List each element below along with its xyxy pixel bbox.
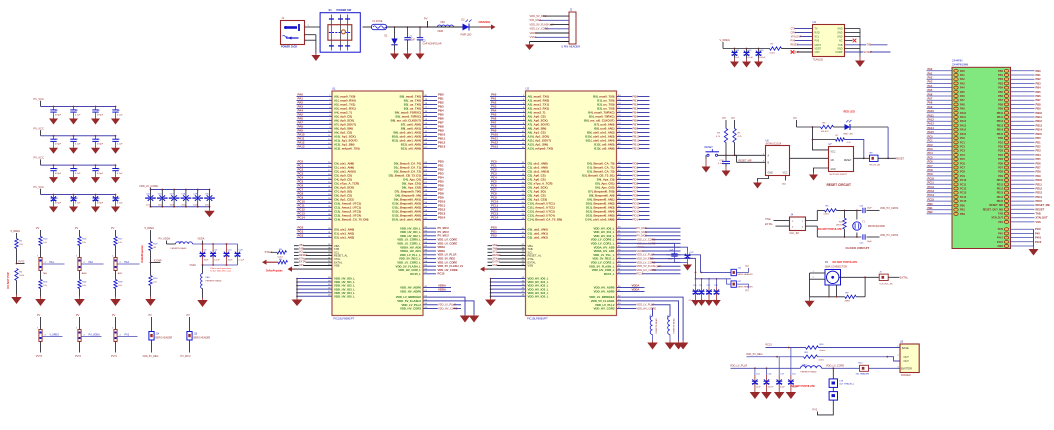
- svg-text:Place each pair close: Place each pair close: [211, 267, 233, 270]
- VDDA cap bank bottom rail: [203, 264, 238, 266]
- svg-text:PV_VDDA: PV_VDDA: [89, 333, 101, 336]
- svg-text:ORANGE: ORANGE: [479, 20, 491, 24]
- U1 left pin TAB: [294, 248, 332, 250]
- svg-text:PB1: PB1: [960, 209, 965, 212]
- capacitor C33 0.1uF: [716, 279, 718, 287]
- ground of 5_0REG divider: [16, 295, 18, 298]
- ground under C40: [73, 116, 75, 119]
- svg-text:0.1uF: 0.1uF: [117, 114, 123, 116]
- U2 left pin PA5: [490, 116, 526, 118]
- wire jack pin1 to switch: [305, 26, 321, 28]
- svg-text:RXD: RXD: [815, 32, 820, 35]
- P1 right pin PB8: [1011, 103, 1035, 105]
- svg-text:0.1uF: 0.1uF: [689, 300, 695, 302]
- U2 left pin PG1: [490, 233, 526, 235]
- SMA left pins: [810, 272, 826, 274]
- wire button to U6: [718, 154, 766, 156]
- capacitor C52: [95, 164, 97, 166]
- svg-text:PD13: PD13: [997, 192, 1004, 195]
- svg-text:3X1 HEADER: 3X1 HEADER: [856, 373, 870, 376]
- svg-text:DO NOT POP: DO NOT POP: [6, 272, 10, 289]
- U2 right supply pin VDD_5V_REG: [617, 258, 681, 260]
- U3 right pin 8 wire: [845, 51, 891, 53]
- svg-text:100-470: 100-470: [821, 131, 830, 133]
- svg-text:TCAN332: TCAN332: [813, 59, 824, 62]
- svg-text:PV_MCU: PV_MCU: [438, 226, 449, 230]
- svg-text:RC15: RC15: [766, 344, 773, 347]
- U2 right pin PB3: [617, 108, 650, 110]
- cap bus wire: [723, 48, 770, 50]
- svg-text:RESET_MB: RESET_MB: [989, 204, 1003, 207]
- svg-text:PC6: PC6: [928, 160, 934, 164]
- svg-text:GND: GND: [997, 245, 1003, 248]
- U1 left pin PC1: [297, 167, 333, 169]
- svg-text:PB12: PB12: [1036, 119, 1043, 123]
- U3 left pin 2 wire: [791, 32, 813, 34]
- svg-text:JCOMP: JCOMP: [154, 260, 163, 262]
- P1 right pin PD8: [1011, 171, 1035, 173]
- svg-text:BASE: BASE: [902, 347, 909, 350]
- svg-text:PD14: PD14: [1036, 195, 1043, 199]
- svg-text:VDDA: VDDA: [632, 288, 640, 292]
- U2 left pin PC14: [490, 219, 526, 221]
- U2 left pin PA6: [490, 120, 526, 122]
- svg-text:PC5: PC5: [960, 158, 965, 161]
- P1 right pin VSS: [1011, 221, 1035, 223]
- P1 left pin PA9: [927, 108, 953, 110]
- U1 right pin PB4: [423, 112, 437, 114]
- capacitor C32 0.1uF: [708, 279, 710, 287]
- svg-text:100nF: 100nF: [768, 387, 775, 389]
- capacitor C31: [53, 135, 55, 137]
- svg-text:PD4: PD4: [1036, 153, 1042, 157]
- svg-text:FERRITE BEAD: FERRITE BEAD: [801, 370, 817, 373]
- svg-text:18pF: 18pF: [867, 208, 872, 210]
- svg-text:P4V1: P4V1: [997, 237, 1004, 240]
- svg-text:PV: PV: [187, 314, 191, 317]
- svg-text:VDD_5V_FLASH_LV: VDD_5V_FLASH_LV: [637, 264, 662, 268]
- U1 right pin PB9: [423, 132, 437, 134]
- U1 left pin PC9: [297, 199, 333, 201]
- U1 left pin PC3: [297, 175, 333, 177]
- svg-text:PVT2: PVT2: [75, 355, 82, 358]
- net arrow XTAL2: [294, 268, 332, 270]
- U2 right pin PD13: [617, 215, 650, 217]
- svg-text:0ohm: 0ohm: [824, 214, 830, 216]
- svg-text:PD10: PD10: [997, 179, 1004, 182]
- capacitor C50: [95, 106, 97, 108]
- U1 left pin PC2: [297, 171, 333, 173]
- svg-text:PV: PV: [424, 17, 428, 21]
- svg-text:PA1: PA1: [928, 71, 933, 75]
- ground under C32: [708, 298, 710, 301]
- U2 left pin PC8: [490, 195, 526, 197]
- SMA bottom rail: [810, 296, 845, 298]
- svg-text:PD4: PD4: [998, 154, 1003, 157]
- U1 left pin PA13: [297, 148, 333, 150]
- svg-text:PV: PV: [794, 117, 798, 120]
- U3 left pin 5 wire: [791, 44, 813, 46]
- svg-text:POWER SW: POWER SW: [337, 8, 352, 12]
- resistor R2: [770, 43, 782, 54]
- U1 right pin PB1: [423, 100, 437, 102]
- wire to RESET net label: [878, 157, 896, 159]
- U2 right pin PB2: [617, 104, 650, 106]
- U1 left pin PA3: [297, 108, 333, 110]
- U2 left pin PC3: [490, 175, 526, 177]
- svg-text:PB7: PB7: [998, 99, 1003, 102]
- svg-text:VSS: VSS: [299, 264, 304, 267]
- transistor block U5: [900, 344, 919, 373]
- svg-text:RESET: RESET: [844, 160, 852, 162]
- capacitor C32: [53, 164, 55, 166]
- svg-text:PD1: PD1: [998, 141, 1003, 144]
- U1 left pin PA1: [297, 100, 333, 102]
- U1 left pin PC14: [297, 219, 333, 221]
- svg-text:470pF: 470pF: [97, 144, 104, 146]
- svg-text:PB2: PB2: [1036, 77, 1042, 81]
- U2 right supply pin VDD_LV_CORE: [617, 242, 681, 244]
- svg-text:5V0_MAX: 5V0_MAX: [530, 18, 542, 22]
- U6 VCC stub to PV: [785, 176, 787, 181]
- ground under C26: [725, 167, 727, 171]
- svg-text:BERG HEADER: BERG HEADER: [738, 273, 754, 276]
- P1 left pin PA11: [927, 116, 953, 118]
- svg-text:PD6: PD6: [998, 162, 1003, 165]
- svg-text:OUT: OUT: [904, 360, 910, 363]
- svg-text:10uF: 10uF: [780, 387, 785, 389]
- svg-text:PD5: PD5: [1036, 157, 1042, 161]
- svg-text:PA15: PA15: [928, 130, 935, 134]
- svg-text:VDD_LV_CORE: VDD_LV_CORE: [826, 365, 844, 368]
- svg-text:10uF: 10uF: [228, 260, 234, 262]
- bottom rail: [817, 236, 861, 238]
- svg-text:VDD_LV_PLLR: VDD_LV_PLLR: [730, 365, 747, 368]
- svg-text:PA12: PA12: [928, 118, 935, 122]
- cap row bottom bus: [151, 206, 210, 208]
- ground under jack: [315, 54, 317, 56]
- svg-text:PB11: PB11: [997, 116, 1004, 119]
- U1 right pin PD7: [423, 191, 437, 193]
- cap bank bus row 1: [41, 106, 116, 108]
- svg-text:PV: PV: [723, 117, 727, 120]
- svg-text:U3: U3: [813, 20, 817, 24]
- svg-text:PA8: PA8: [960, 103, 965, 106]
- U1 left pin PA9: [297, 132, 333, 134]
- resistor R7: [836, 138, 845, 141]
- ground under C32: [53, 174, 55, 177]
- U2 left pin PA0: [490, 96, 526, 98]
- U3 right pin 12 wire: [845, 36, 861, 38]
- P1 right pin PB11: [1011, 116, 1035, 118]
- U2 left pin PC4: [490, 179, 526, 181]
- U2 left pin RESET: [488, 255, 526, 257]
- svg-text:SCOMP: SCOMP: [864, 51, 873, 54]
- capacitor C42: [73, 164, 75, 166]
- U1 right pin PD2: [423, 171, 437, 173]
- U2 right pin PD11: [617, 207, 650, 209]
- U2 right supply pin VDD_HV_CORE: [617, 269, 681, 271]
- U1 left pin PC10: [297, 203, 333, 205]
- svg-text:RC15: RC15: [438, 272, 445, 276]
- svg-text:PC6: PC6: [960, 162, 965, 165]
- capacitor C30: [53, 106, 55, 108]
- U1 right pin PB2: [423, 104, 437, 106]
- P1 left pin PC1: [927, 141, 953, 143]
- P1 left pin PC4: [927, 154, 953, 156]
- svg-text:PC14: PC14: [298, 216, 306, 220]
- P1 right pin PD13: [1011, 192, 1035, 194]
- LED rail: [797, 126, 821, 128]
- svg-text:RESET_MB: RESET_MB: [1036, 203, 1050, 207]
- svg-text:G2(_ulx1_AN2): G2(_ulx1_AN2): [334, 236, 354, 240]
- P1 right pin PB14: [1011, 129, 1035, 131]
- svg-text:PA3: PA3: [125, 261, 130, 264]
- P1 right pin XTALOUT: [1011, 217, 1035, 219]
- U2 left pin PA8: [490, 128, 526, 130]
- svg-text:PA4: PA4: [960, 87, 965, 90]
- ground under C16: [766, 390, 768, 393]
- svg-text:PC9: PC9: [928, 172, 934, 176]
- U2 right supply pin VDD_LV_PLLR: [617, 254, 681, 256]
- U2 left pin PA12: [490, 144, 526, 146]
- svg-text:VDD_LV_PLLR: VDD_LV_PLLR: [438, 253, 457, 257]
- U1 right pin PD11: [423, 207, 437, 209]
- svg-text:POWER JACK: POWER JACK: [281, 46, 297, 49]
- svg-text:RESET_MR: RESET_MR: [739, 160, 752, 163]
- U2 right pin PD7: [617, 191, 650, 193]
- ground of P1: [1033, 246, 1035, 249]
- LED D3 red: [845, 124, 851, 130]
- P1 right pin PD14: [1011, 196, 1035, 198]
- P1 left pin PA5: [927, 91, 953, 93]
- svg-text:S1: S1: [329, 8, 333, 12]
- svg-text:PB13: PB13: [633, 147, 640, 151]
- second pullup rail: [813, 127, 829, 150]
- svg-text:0.1uF: 0.1uF: [713, 300, 719, 302]
- svg-text:PC7: PC7: [960, 167, 965, 170]
- svg-text:PC15: PC15: [960, 200, 967, 203]
- U2 right pin PD5: [617, 183, 650, 185]
- U1 right supply pin VDD_HV_CORE: [423, 269, 436, 271]
- P1 right pin PCN: [1011, 228, 1034, 230]
- svg-text:XTAL2: XTAL2: [265, 251, 273, 254]
- svg-text:RED LED: RED LED: [844, 133, 854, 135]
- svg-text:0R: 0R: [153, 247, 156, 249]
- svg-text:P4V1: P4V1: [1035, 236, 1042, 240]
- U1 left pin PA10: [297, 136, 333, 138]
- capacitor C40: [73, 106, 75, 108]
- svg-text:PA13: PA13: [491, 145, 498, 149]
- ground under C1: [407, 51, 409, 54]
- svg-text:0ohm: 0ohm: [278, 256, 284, 258]
- svg-text:PD7: PD7: [998, 167, 1003, 170]
- ground under C17: [778, 390, 780, 393]
- svg-text:DO NOT POPULATE: DO NOT POPULATE: [818, 228, 842, 231]
- svg-text:FERRITE BEAD: FERRITE BEAD: [206, 280, 222, 283]
- P1 right pin PD0: [1011, 137, 1035, 139]
- net label RESET_MR wire: [735, 154, 737, 156]
- U1 right pin PB3: [423, 108, 437, 110]
- ferrite bead FB6 vertical: [650, 316, 652, 334]
- svg-text:PC13: PC13: [928, 189, 935, 193]
- svg-text:0.1uF: 0.1uF: [117, 173, 123, 175]
- resistor R6: [821, 125, 834, 128]
- U1 left pin PA8: [297, 128, 333, 130]
- crystal Y1: [856, 210, 858, 219]
- svg-text:VDD_LV_CORE: VDD_LV_CORE: [438, 238, 458, 242]
- svg-text:CTX: CTX: [791, 27, 796, 30]
- svg-text:PA6: PA6: [928, 92, 933, 96]
- svg-text:PA13: PA13: [298, 145, 305, 149]
- U2 right supply pin VDD_LV_CORE: [617, 261, 681, 263]
- svg-text:0.1uF: 0.1uF: [239, 260, 245, 262]
- U2 left pin PC1: [490, 167, 526, 169]
- svg-text:PA11: PA11: [928, 113, 935, 117]
- svg-text:PV_MCU: PV_MCU: [438, 230, 449, 234]
- P1 right pin PB15: [1011, 133, 1035, 135]
- ground under C41: [73, 145, 75, 148]
- U1 right supply pin VDD_LV_CORE: [423, 239, 436, 241]
- svg-text:PIC18LF8680/PT: PIC18LF8680/PT: [334, 317, 355, 321]
- svg-text:P4V: P4V: [1035, 231, 1040, 235]
- svg-text:EMITTER: EMITTER: [901, 368, 912, 371]
- ground under C2: [419, 51, 421, 54]
- svg-text:V_0REG: V_0REG: [50, 333, 60, 336]
- P1 left pin PB0: [927, 205, 953, 207]
- svg-text:BERG HEADER: BERG HEADER: [194, 336, 211, 339]
- ferrite bead FB4 vertical: [202, 265, 204, 274]
- svg-text:0.1uF: 0.1uF: [214, 260, 220, 262]
- svg-text:OUT: OUT: [904, 356, 910, 359]
- U1 right pin PD3: [423, 175, 437, 177]
- U1 left pin VBA: [294, 245, 332, 247]
- P1 left pin PA1: [927, 74, 953, 76]
- svg-text:PVT3: PVT3: [36, 355, 43, 358]
- svg-text:PB9: PB9: [1036, 107, 1042, 111]
- svg-text:FB1: FB1: [441, 21, 446, 24]
- svg-text:PV_VCC: PV_VCC: [34, 126, 45, 130]
- svg-text:VDD_HV_COR3: VDD_HV_COR3: [400, 307, 421, 311]
- svg-text:V_0REG: V_0REG: [720, 38, 730, 42]
- U2 left pin PC9: [490, 199, 526, 201]
- svg-text:10uF: 10uF: [410, 39, 416, 42]
- U2 right supply pin PV_MCU: [617, 227, 681, 229]
- svg-text:5_0REG: 5_0REG: [11, 230, 21, 233]
- svg-text:PB3: PB3: [1036, 81, 1042, 85]
- U2 right supply pin VDDA: [617, 246, 681, 248]
- U1 right pin PD4: [423, 179, 437, 181]
- svg-text:470pF: 470pF: [55, 144, 62, 146]
- svg-text:PC1: PC1: [960, 141, 965, 144]
- U2 right pin PD4: [617, 179, 650, 181]
- U1 left pin SCL: [294, 251, 332, 253]
- svg-text:VDDA: VDDA: [438, 288, 446, 292]
- P1 gnd bus: [1033, 229, 1035, 246]
- U2 left pin TAB: [488, 248, 526, 250]
- U2 left pin PA2: [490, 104, 526, 106]
- ground VDD_LV_CORE row: [209, 207, 211, 209]
- U1 right pin PD1: [423, 167, 437, 169]
- U1 left pin PC5: [297, 183, 333, 185]
- U3 left pin 7 wire: [791, 51, 813, 53]
- svg-text:A13(_mApw0_TX0): A13(_mApw0_TX0): [334, 147, 360, 151]
- svg-text:B13(_ut0_AN6): B13(_ut0_AN6): [401, 147, 421, 151]
- P1 right pin P4V1: [1011, 237, 1034, 239]
- svg-text:GB: GB: [831, 160, 835, 162]
- svg-text:PB6: PB6: [1036, 94, 1042, 98]
- net arrow PV out: [480, 26, 492, 28]
- U2 right supply pin VDDA: [617, 250, 681, 252]
- svg-text:PB2: PB2: [928, 210, 934, 214]
- jumper J18: [832, 387, 834, 391]
- ground under C15: [790, 390, 792, 393]
- U2 right pin PB11: [617, 140, 650, 142]
- U2 right pin PD8: [617, 195, 650, 197]
- svg-text:PD5: PD5: [998, 158, 1003, 161]
- capacitor C17: [778, 357, 780, 375]
- U1 left pin PA11: [297, 140, 333, 142]
- U1 right supply pin RC15: [423, 273, 436, 275]
- CAN transceiver U3: [813, 20, 845, 62]
- rail to jumper J16: [667, 255, 732, 273]
- P1 left pin PA3: [927, 82, 953, 84]
- svg-text:SCL: SCL: [815, 36, 820, 39]
- svg-text:5_0REG: 5_0REG: [145, 227, 155, 230]
- U2 left pin PG2: [490, 237, 526, 239]
- ground under C62: [115, 174, 117, 177]
- ground under C60: [115, 116, 117, 119]
- svg-text:1uF: 1uF: [735, 57, 739, 59]
- U1 left pin PA0: [297, 96, 333, 98]
- P1 left pin PA10: [927, 112, 953, 114]
- svg-text:RC15: RC15: [637, 272, 644, 276]
- svg-text:PD0: PD0: [1036, 136, 1042, 140]
- wire switch to fuse: [363, 26, 372, 28]
- svg-text:PC1: PC1: [928, 139, 934, 143]
- svg-text:0.1uF: 0.1uF: [75, 114, 81, 116]
- svg-text:B13(_ut0_AN6): B13(_ut0_AN6): [594, 147, 614, 151]
- capacitor C53: [95, 194, 97, 196]
- svg-text:U2: U2: [526, 87, 530, 91]
- wire FB1 to LED: [454, 26, 463, 28]
- svg-text:TAB: TAB: [998, 213, 1003, 216]
- U2 right pin PB13: [617, 148, 650, 150]
- P1 left pin PB2: [927, 213, 953, 215]
- P1 left pin PA14: [927, 129, 953, 131]
- ground under C63: [115, 204, 117, 207]
- U1 left pin PC4: [297, 179, 333, 181]
- net arrow XOUT: [266, 261, 278, 263]
- U2 right pin PB10: [617, 136, 650, 138]
- cut-trace jumper C19: [832, 368, 834, 379]
- P1 left pin PA12: [927, 120, 953, 122]
- net arrow XOUT2: [488, 268, 526, 270]
- P1 left pin PC6: [927, 162, 953, 164]
- svg-text:C14(_Bmux0_CA_T0_DN): C14(_Bmux0_CA_T0_DN): [334, 218, 369, 222]
- U2 right pin PB1: [617, 100, 650, 102]
- capacitor C26 debounce: [725, 155, 727, 158]
- P1 right pin PD1: [1011, 141, 1035, 143]
- svg-text:PC3: PC3: [928, 147, 934, 151]
- svg-text:XTALOUT: XTALOUT: [791, 35, 802, 38]
- svg-text:URX: URX: [815, 51, 820, 54]
- capacitor C20 200nF: [150, 189, 152, 191]
- svg-text:RESET: RESET: [1036, 207, 1045, 211]
- svg-text:PCN: PCN: [1035, 227, 1041, 231]
- U1 left pin PC0: [297, 163, 333, 165]
- svg-text:0.1uF: 0.1uF: [701, 300, 707, 302]
